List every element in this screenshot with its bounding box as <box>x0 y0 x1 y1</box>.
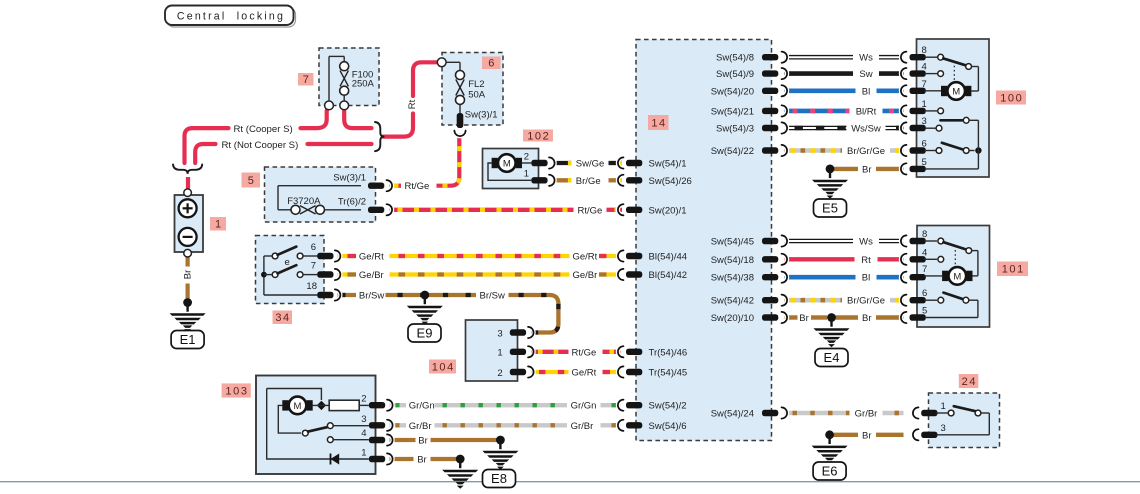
svg-text:Sw(54)/18: Sw(54)/18 <box>711 255 754 266</box>
svg-text:50A: 50A <box>468 89 486 100</box>
svg-text:Br/Sw: Br/Sw <box>480 291 505 302</box>
svg-text:24: 24 <box>962 376 977 388</box>
svg-text:Sw(54)/24: Sw(54)/24 <box>711 409 754 420</box>
svg-text:Ge/Rt: Ge/Rt <box>359 252 384 263</box>
svg-text:E1: E1 <box>180 332 196 347</box>
svg-text:M: M <box>952 86 960 97</box>
svg-text:1: 1 <box>215 219 221 231</box>
svg-text:7: 7 <box>922 79 927 90</box>
svg-text:Br: Br <box>799 313 809 324</box>
svg-text:1: 1 <box>524 169 529 180</box>
svg-text:Sw(54)/1: Sw(54)/1 <box>649 159 687 170</box>
svg-text:2: 2 <box>524 151 529 162</box>
svg-text:Br: Br <box>417 455 427 466</box>
svg-text:Sw/Ge: Sw/Ge <box>576 159 605 170</box>
svg-text:4: 4 <box>922 62 927 73</box>
svg-text:Tr(54)/46: Tr(54)/46 <box>649 347 688 358</box>
svg-text:Br: Br <box>182 270 193 280</box>
svg-text:Rt: Rt <box>407 99 418 109</box>
svg-text:102: 102 <box>527 130 550 142</box>
svg-text:Sw: Sw <box>859 69 872 80</box>
svg-text:Sw(54)/45: Sw(54)/45 <box>711 237 754 248</box>
svg-text:100: 100 <box>1000 92 1023 104</box>
svg-text:Bl(54)/42: Bl(54)/42 <box>649 270 688 281</box>
svg-text:Br/Ge: Br/Ge <box>576 176 601 187</box>
svg-text:101: 101 <box>1002 264 1025 276</box>
svg-text:6: 6 <box>922 288 927 299</box>
svg-text:1: 1 <box>941 401 946 412</box>
svg-text:6: 6 <box>922 139 927 150</box>
svg-text:Tr(54)/45: Tr(54)/45 <box>649 368 688 379</box>
svg-text:M: M <box>503 158 511 169</box>
svg-text:4: 4 <box>361 428 366 439</box>
svg-text:3: 3 <box>497 328 502 339</box>
svg-text:5: 5 <box>922 306 927 317</box>
svg-text:Ws/Sw: Ws/Sw <box>851 124 881 135</box>
svg-text:Br: Br <box>862 430 872 441</box>
svg-text:Bl: Bl <box>862 86 870 97</box>
svg-text:Gr/Gn: Gr/Gn <box>571 401 597 412</box>
svg-text:6: 6 <box>488 58 494 70</box>
svg-text:Ge/Rt: Ge/Rt <box>572 368 597 379</box>
svg-text:34: 34 <box>275 312 290 324</box>
svg-text:Rt/Ge: Rt/Ge <box>572 347 597 358</box>
svg-text:Sw(54)/38: Sw(54)/38 <box>711 273 754 284</box>
svg-text:Ws: Ws <box>859 53 873 64</box>
svg-text:e: e <box>285 257 290 268</box>
svg-text:Sw(54)/21: Sw(54)/21 <box>711 106 754 117</box>
svg-text:Tr(6)/2: Tr(6)/2 <box>338 196 366 207</box>
svg-text:Bl(54)/44: Bl(54)/44 <box>649 252 688 263</box>
svg-text:Gr/Gn: Gr/Gn <box>409 401 435 412</box>
svg-text:1: 1 <box>361 447 366 458</box>
svg-text:Sw(3)/1: Sw(3)/1 <box>465 109 498 120</box>
svg-text:Gr/Br: Gr/Br <box>571 421 594 432</box>
svg-text:2: 2 <box>361 394 366 405</box>
svg-text:104: 104 <box>432 361 455 373</box>
svg-text:7: 7 <box>303 74 309 86</box>
svg-text:14: 14 <box>651 117 666 129</box>
svg-text:Ge/Rt: Ge/Rt <box>573 252 598 263</box>
svg-text:Br: Br <box>862 313 872 324</box>
svg-text:Br: Br <box>418 436 428 447</box>
svg-text:Rt (Cooper S): Rt (Cooper S) <box>234 124 293 135</box>
svg-text:3: 3 <box>922 116 927 127</box>
svg-text:Sw(54)/22: Sw(54)/22 <box>711 146 754 157</box>
svg-text:E8: E8 <box>491 471 507 486</box>
svg-text:M: M <box>953 271 961 282</box>
svg-text:Sw(54)/2: Sw(54)/2 <box>649 401 687 412</box>
svg-text:Sw(54)/9: Sw(54)/9 <box>716 69 754 80</box>
svg-text:5: 5 <box>248 175 254 187</box>
svg-text:Br: Br <box>862 164 872 175</box>
svg-text:Bl/Rt: Bl/Rt <box>856 106 877 117</box>
svg-text:7: 7 <box>922 264 927 275</box>
svg-text:Br/Gr/Ge: Br/Gr/Ge <box>847 296 885 307</box>
svg-text:Sw(54)/8: Sw(54)/8 <box>716 53 754 64</box>
svg-text:E6: E6 <box>822 463 838 478</box>
svg-text:Sw(54)/6: Sw(54)/6 <box>649 421 687 432</box>
svg-text:8: 8 <box>922 229 927 240</box>
svg-text:1: 1 <box>922 99 927 110</box>
svg-text:Br/Sw: Br/Sw <box>359 291 384 302</box>
svg-text:Rt: Rt <box>861 255 871 266</box>
svg-text:103: 103 <box>225 385 248 397</box>
svg-text:Rt (Not Cooper S): Rt (Not Cooper S) <box>222 140 299 151</box>
svg-text:4: 4 <box>922 247 927 258</box>
svg-text:2: 2 <box>497 368 502 379</box>
svg-text:Sw(3)/1: Sw(3)/1 <box>333 172 366 183</box>
svg-text:3: 3 <box>361 414 366 425</box>
svg-text:E5: E5 <box>822 200 838 215</box>
svg-text:F3720A: F3720A <box>287 196 321 207</box>
svg-text:Sw(20)/1: Sw(20)/1 <box>649 205 687 216</box>
svg-text:Sw(54)/26: Sw(54)/26 <box>649 176 692 187</box>
svg-text:Ge/Br: Ge/Br <box>573 270 598 281</box>
svg-text:Central locking: Central locking <box>177 10 285 22</box>
svg-text:250A: 250A <box>352 79 375 90</box>
svg-text:Ws: Ws <box>859 237 873 248</box>
svg-text:3: 3 <box>941 423 946 434</box>
svg-text:E9: E9 <box>417 325 433 340</box>
svg-text:Gr/Br: Gr/Br <box>409 421 432 432</box>
svg-text:Sw(20)/10: Sw(20)/10 <box>711 313 754 324</box>
svg-text:Ge/Br: Ge/Br <box>359 270 384 281</box>
svg-text:Rt/Ge: Rt/Ge <box>578 205 603 216</box>
svg-text:5: 5 <box>922 157 927 168</box>
svg-text:M: M <box>294 401 302 412</box>
svg-text:Sw(54)/42: Sw(54)/42 <box>711 296 754 307</box>
svg-text:Rt/Ge: Rt/Ge <box>405 181 430 192</box>
svg-text:7: 7 <box>311 261 316 272</box>
svg-text:18: 18 <box>306 281 317 292</box>
svg-text:Sw(54)/3: Sw(54)/3 <box>716 124 754 135</box>
svg-text:E4: E4 <box>824 350 840 365</box>
svg-text:Gr/Br: Gr/Br <box>855 409 878 420</box>
svg-text:8: 8 <box>922 45 927 56</box>
svg-text:Bl: Bl <box>862 273 870 284</box>
svg-text:Br/Gr/Ge: Br/Gr/Ge <box>847 146 885 157</box>
svg-text:Sw(54)/20: Sw(54)/20 <box>711 86 754 97</box>
svg-text:6: 6 <box>311 242 316 253</box>
svg-text:1: 1 <box>497 348 502 359</box>
svg-text:FL2: FL2 <box>468 79 484 90</box>
